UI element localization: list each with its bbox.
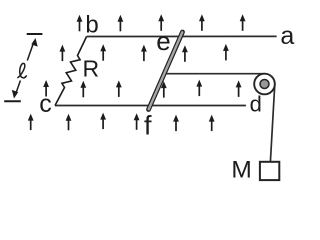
svg-text:f: f <box>144 111 152 141</box>
field arrow row4-4 <box>134 113 140 130</box>
wire top rail b-a <box>87 35 277 37</box>
mass M block <box>260 162 279 180</box>
rod e-f <box>149 32 183 110</box>
field arrow row2-5 <box>223 44 229 61</box>
field arrow row3-2 <box>80 81 86 98</box>
svg-text:e: e <box>156 26 170 56</box>
svg-text:b: b <box>85 12 98 39</box>
field arrow row1-3 <box>158 14 164 31</box>
pulley <box>254 74 275 95</box>
field arrow row1-1 <box>77 15 83 32</box>
field arrow row4-1 <box>28 114 34 131</box>
field arrow row2-1 <box>60 45 66 62</box>
field arrow row3-3 <box>116 80 122 96</box>
field arrow row4-5 <box>173 115 179 132</box>
field arrow row4-2 <box>66 114 72 131</box>
field arrow row3-1 <box>43 80 49 97</box>
field arrow row3-6 <box>236 80 242 96</box>
field arrow row1-4 <box>199 14 205 31</box>
label ell <box>18 63 27 77</box>
field arrow row4-3 <box>100 113 106 130</box>
wire bottom rail c-d <box>55 105 246 107</box>
field arrow row3-5 <box>196 80 202 97</box>
field arrow row2-2 <box>100 44 106 61</box>
wire string to pulley <box>164 74 275 162</box>
field arrow row3-4 <box>161 81 167 98</box>
svg-text:a: a <box>280 22 294 50</box>
resistor R <box>55 37 87 106</box>
svg-text:M: M <box>231 156 251 183</box>
field arrow row4-6 <box>209 115 215 132</box>
length marker ell <box>4 34 42 101</box>
svg-text:d: d <box>250 92 262 117</box>
field arrow row1-2 <box>118 15 124 32</box>
field arrow row2-4 <box>182 45 188 62</box>
field arrow row1-5 <box>240 14 246 31</box>
field arrow row2-3 <box>141 45 147 62</box>
svg-text:R: R <box>83 55 100 81</box>
